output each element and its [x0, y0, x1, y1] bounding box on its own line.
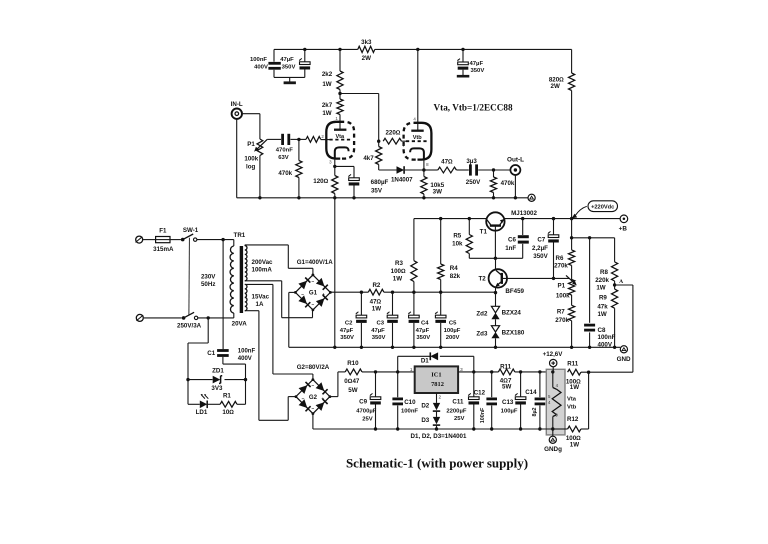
LV 0V rail	[313, 428, 553, 430]
svg-text:100nF: 100nF	[598, 334, 616, 341]
capacitor C11 2200uF 25V	[473, 372, 475, 397]
svg-text:82k: 82k	[450, 273, 461, 280]
svg-text:47Ω: 47Ω	[370, 298, 382, 305]
switch link line	[188, 238, 191, 315]
svg-text:R11: R11	[567, 360, 579, 367]
svg-text:T2: T2	[478, 275, 486, 282]
node 0V C9	[374, 427, 377, 430]
svg-text:G1=400V/1A: G1=400V/1A	[297, 259, 333, 266]
resistor R10 0R47 5W	[345, 369, 362, 375]
wire amp ground drop	[334, 198, 336, 347]
node C14 top	[538, 370, 541, 373]
chassis ground symbol (amp)	[528, 194, 535, 201]
node 0V C8	[588, 346, 591, 349]
svg-text:BZX24: BZX24	[502, 309, 522, 316]
diode D1	[430, 352, 438, 360]
svg-text:C2: C2	[345, 320, 353, 326]
node A	[613, 283, 616, 286]
svg-text:5W: 5W	[348, 387, 357, 394]
node rail C7	[552, 217, 555, 220]
diode D3	[433, 417, 440, 424]
wire diode to cathode node	[405, 169, 424, 171]
svg-text:C6: C6	[508, 237, 516, 244]
node 0V C5	[439, 346, 442, 349]
wire R11 to node	[581, 371, 633, 373]
svg-text:−: −	[302, 397, 305, 402]
svg-text:25V: 25V	[362, 416, 373, 422]
transformer core	[240, 246, 243, 313]
ground rail (amp)	[236, 119, 238, 198]
svg-text:100µF: 100µF	[444, 328, 461, 334]
node 0V amp ground	[333, 346, 336, 349]
bridge rectifier G2	[296, 380, 330, 414]
capacitor C14 8u2	[539, 372, 541, 397]
wire mains N to switch	[144, 317, 182, 319]
capacitor C10 100nF	[397, 372, 399, 397]
terminal GND (B supply)	[620, 346, 627, 353]
svg-text:R10: R10	[347, 360, 359, 367]
wire switch to transformer (bottom)	[198, 317, 234, 319]
wire G2 plus to R10	[330, 396, 338, 398]
diode 1N4007	[397, 166, 405, 174]
arrow +220Vdc	[575, 206, 586, 215]
node rail C6	[521, 217, 524, 220]
wire switch to transformer (top)	[197, 239, 234, 241]
svg-text:+220Vdc: +220Vdc	[591, 205, 614, 211]
svg-text:350V: 350V	[372, 335, 386, 341]
svg-text:TR1: TR1	[234, 232, 246, 239]
wire rail after R11	[515, 371, 553, 373]
svg-text:+: +	[322, 293, 325, 298]
svg-text:25V: 25V	[454, 416, 465, 422]
svg-text:C14: C14	[525, 389, 537, 396]
wire cap to grid stopper	[291, 138, 307, 140]
IC1 7812 regulator	[415, 366, 458, 393]
node C3 top	[391, 291, 394, 294]
svg-text:C11: C11	[452, 399, 464, 406]
svg-text:R5: R5	[453, 233, 461, 240]
wire 200Vac bottom to bridge G1	[245, 280, 282, 282]
wire T2 base line to P1	[502, 277, 570, 279]
svg-text:1W: 1W	[570, 384, 579, 391]
wire cathode node to 47R	[424, 169, 438, 171]
svg-text:220Ω: 220Ω	[385, 129, 400, 136]
svg-text:1nF: 1nF	[505, 245, 516, 252]
wire G2 minus to LV rail	[312, 414, 314, 429]
svg-text:D3: D3	[421, 417, 429, 424]
svg-text:ZD1: ZD1	[212, 368, 224, 375]
svg-text:2,2µF: 2,2µF	[532, 245, 548, 252]
capacitor C13 100uF	[520, 372, 522, 397]
resistor R12 100R 1W (heater)	[568, 426, 581, 432]
P1 wiper arrow (regulator)	[566, 275, 575, 283]
input jack IN-L	[232, 109, 242, 119]
node branch to C8/R8	[570, 236, 573, 239]
resistor R1 10R	[220, 401, 237, 407]
resistor 470k output	[493, 170, 495, 177]
terminal GNDg	[552, 429, 554, 436]
svg-text:−: −	[311, 280, 314, 285]
wire node A to heater network	[615, 284, 633, 286]
wire R12 to node	[581, 428, 589, 430]
node ZD1 left	[186, 378, 189, 381]
svg-text:100µF: 100µF	[501, 408, 518, 414]
resistor R11 4R7 5W	[498, 369, 514, 375]
svg-text:35V: 35V	[371, 187, 383, 194]
svg-text:230V: 230V	[201, 274, 216, 281]
svg-text:GND: GND	[617, 356, 631, 363]
wire IN-L to pot top	[242, 113, 260, 115]
svg-text:F1: F1	[159, 228, 167, 235]
Vtb grid (dashed)	[406, 140, 429, 142]
svg-text:−: −	[301, 293, 304, 298]
node 470k output top	[492, 168, 495, 171]
svg-text:Out-L: Out-L	[507, 156, 524, 163]
node C2 top	[360, 291, 363, 294]
svg-text:470k: 470k	[278, 170, 292, 177]
svg-text:250V/3A: 250V/3A	[177, 322, 202, 329]
svg-text:350V: 350V	[340, 335, 354, 341]
wire mains L to fuse	[143, 239, 156, 241]
svg-text:Zd2: Zd2	[476, 311, 488, 318]
wire 3u3 to Out-L	[478, 169, 510, 171]
wire +220V rail (emitter side)	[505, 218, 621, 220]
output jack Out-L	[510, 165, 520, 175]
fuse F1 315mA	[156, 237, 170, 243]
node rail R5	[468, 217, 471, 220]
svg-text:1W: 1W	[597, 311, 606, 318]
capacitor 680uF 35V electrolytic	[349, 178, 360, 181]
potentiometer P1 100k (regulator)	[569, 280, 575, 296]
node gnd 10k5	[422, 196, 425, 199]
svg-text:100nF: 100nF	[250, 57, 267, 63]
svg-text:1: 1	[410, 367, 413, 372]
node C7 bottom / T2 base line	[552, 277, 555, 280]
svg-text:R8: R8	[600, 269, 608, 276]
wire D1 bypass	[397, 356, 399, 372]
wire G1 plus raw HT rail	[330, 291, 368, 293]
capacitor 47uF 350V (above Vtb, electrolytic)	[462, 49, 464, 62]
wire +12.6V terminal to rail	[552, 367, 554, 372]
resistor R11 100R 1W (heater)	[568, 369, 581, 375]
wire Vtb anode to top rail	[417, 49, 419, 130]
node gnd 120R	[333, 196, 336, 199]
svg-text:350V: 350V	[416, 335, 430, 341]
wire R10 to IC1	[362, 371, 415, 373]
wire T2 collector up	[495, 258, 497, 269]
svg-text:400V: 400V	[238, 356, 252, 362]
svg-text:47µF: 47µF	[470, 61, 484, 67]
node 0V D3	[435, 427, 438, 430]
resistor 10k5 3W	[423, 170, 425, 177]
node 0V C3	[391, 346, 394, 349]
0V rail (HT)	[289, 346, 621, 348]
node 0V C11	[472, 427, 475, 430]
svg-text:C3: C3	[377, 320, 385, 326]
wire cap bottoms link	[273, 70, 275, 78]
node C1 branch (top mains)	[221, 238, 224, 241]
node C10/D1 top	[396, 370, 399, 373]
node C1 return branch	[207, 316, 210, 319]
node gnd jack	[514, 196, 517, 199]
svg-text:C4: C4	[421, 320, 429, 326]
svg-text:8µ2: 8µ2	[532, 407, 538, 416]
svg-text:10Ω: 10Ω	[222, 409, 234, 416]
svg-text:R6: R6	[556, 255, 564, 262]
heater resistor (tube heaters)	[552, 372, 554, 388]
svg-text:−: −	[311, 303, 314, 308]
svg-text:R3: R3	[395, 260, 403, 267]
Vta grid (dashed)	[330, 139, 352, 141]
resistor R4 82k	[440, 219, 442, 264]
P1 wiper arrow	[267, 138, 281, 140]
capacitor C5 100uF 200V	[440, 292, 442, 315]
resistor R7 270k	[569, 305, 575, 320]
svg-text:100mA: 100mA	[252, 266, 273, 273]
svg-text:470nF: 470nF	[276, 148, 293, 154]
capacitor C6 1nF	[522, 219, 524, 235]
wire IC1 output rail	[458, 371, 498, 373]
wire +220V rail (collector side)	[414, 218, 486, 220]
transistor T2 BF459	[489, 269, 507, 287]
capacitor C7 2.2uF 350V	[553, 219, 555, 235]
svg-text:20VA: 20VA	[232, 321, 248, 328]
svg-text:IC1: IC1	[431, 372, 441, 379]
svg-text:47µF: 47µF	[416, 328, 430, 334]
resistor 2k7 1W	[337, 99, 343, 115]
wire Zd3 to 0V rail	[495, 338, 497, 347]
wire Zd2 to Zd3	[495, 319, 497, 325]
svg-text:200V: 200V	[446, 335, 460, 341]
svg-text:G2: G2	[309, 394, 318, 401]
node rail right column	[570, 217, 573, 220]
svg-text:270k: 270k	[555, 317, 569, 324]
wire 200Vac top to bridge G1	[244, 244, 246, 247]
mains terminal N	[136, 314, 143, 321]
svg-text:P1: P1	[558, 283, 566, 290]
svg-text:120Ω: 120Ω	[313, 178, 328, 185]
label +220Vdc bubble	[588, 201, 618, 212]
svg-text:R7: R7	[557, 309, 565, 316]
svg-text:3: 3	[460, 367, 463, 372]
svg-text:47µF: 47µF	[340, 328, 354, 334]
resistor 220R grid Vtb	[383, 138, 401, 144]
svg-text:2k7: 2k7	[322, 102, 333, 109]
svg-text:2: 2	[439, 394, 442, 399]
svg-text:Zd3: Zd3	[476, 331, 488, 338]
svg-text:1W: 1W	[322, 81, 331, 88]
svg-text:C12: C12	[474, 390, 486, 397]
wire C1 bottom to ZD1 branch	[223, 363, 246, 365]
wire 15Vac bottom to bridge G2	[245, 310, 259, 312]
svg-text:100Ω: 100Ω	[391, 268, 406, 275]
wire top B+ rail right segment	[375, 48, 572, 50]
node C5/R4 junction	[439, 291, 442, 294]
Vtb anode (plate) bar	[411, 130, 423, 132]
potentiometer P1 100k log	[257, 139, 263, 156]
node C9 top	[374, 370, 377, 373]
resistor 3k3 in top rail	[358, 46, 375, 52]
svg-text:D1, D2, D3=1N4001: D1, D2, D3=1N4001	[411, 433, 467, 440]
svg-text:+B: +B	[619, 225, 628, 232]
node 0V zener	[494, 346, 497, 349]
node top rail / Vtb anode	[416, 48, 419, 51]
capacitor 100nF 400V (top left)	[273, 49, 275, 61]
capacitor 470nF 63V	[281, 134, 284, 145]
node heater network	[587, 371, 590, 374]
zener Zd2 BZX24	[491, 306, 499, 313]
svg-text:50Hz: 50Hz	[201, 281, 215, 288]
node 220R/4k7 junction	[377, 140, 380, 143]
svg-text:+: +	[321, 397, 324, 402]
resistor 4k7	[378, 141, 380, 146]
svg-text:D2: D2	[421, 403, 429, 410]
svg-text:350V: 350V	[533, 253, 548, 260]
svg-text:GNDg: GNDg	[544, 446, 562, 453]
node top rail / 47uF 350V branch	[461, 48, 464, 51]
svg-text:270k: 270k	[554, 263, 568, 270]
wire IC1 pin2 down	[436, 393, 438, 403]
wire ZD1 line	[188, 379, 213, 381]
wire stopper to Vta grid	[321, 139, 330, 141]
wire cathode to 680uF	[335, 165, 354, 167]
switch SW-1 pole 2	[182, 316, 186, 320]
node Vtb cathode junction	[422, 168, 425, 171]
svg-text:log: log	[246, 163, 255, 170]
Vta anode (plate) bar	[334, 129, 346, 131]
node C4/R3 junction	[412, 291, 415, 294]
svg-text:1W: 1W	[322, 110, 331, 117]
resistor grid stopper	[306, 137, 321, 143]
node 0V C13	[519, 427, 522, 430]
node gnd 470k out	[492, 196, 495, 199]
wire G1 minus to 0V rail	[289, 291, 296, 293]
node heater top / +12.6V	[551, 370, 554, 373]
resistor R6 270k	[569, 250, 575, 266]
svg-text:C10: C10	[404, 399, 416, 406]
switch SW-1 pole 1	[181, 238, 185, 242]
wire 4k7 to diode	[379, 169, 397, 171]
LED LD1	[188, 403, 200, 405]
node ZD1 right	[244, 378, 247, 381]
node 0V C4	[412, 346, 415, 349]
terminal +12.6V	[550, 359, 557, 366]
resistor R3 100R 1W	[413, 219, 415, 261]
svg-text:2200µF: 2200µF	[446, 408, 466, 414]
svg-text:Vta, Vtb=1/2ECC88: Vta, Vtb=1/2ECC88	[434, 103, 513, 113]
node 0V C14	[538, 427, 541, 430]
resistor 2k2 1W	[339, 49, 341, 71]
svg-text:2W: 2W	[551, 83, 560, 90]
heater block (gray)	[546, 369, 565, 435]
svg-text:15Vac: 15Vac	[252, 293, 270, 300]
node C13 top	[519, 370, 522, 373]
svg-text:C1: C1	[207, 350, 215, 357]
svg-text:47µF: 47µF	[371, 328, 385, 334]
node rail R4	[439, 217, 442, 220]
svg-text:2W: 2W	[362, 55, 371, 62]
wire T2 emitter down	[495, 287, 497, 306]
node top rail / 47uF branch	[303, 48, 306, 51]
svg-text:1W: 1W	[393, 275, 402, 282]
resistor 47R output	[438, 167, 457, 173]
svg-text:Vta: Vta	[567, 397, 577, 403]
svg-text:−: −	[311, 384, 314, 389]
wire Vtb cathode down	[423, 159, 425, 170]
svg-text:63V: 63V	[278, 155, 289, 161]
ground symbol (top left)	[289, 77, 291, 82]
svg-text:BZX180: BZX180	[502, 329, 525, 336]
wire top B+ rail left segment	[274, 48, 358, 50]
svg-text:1W: 1W	[596, 285, 605, 292]
svg-text:2k2: 2k2	[322, 71, 333, 78]
svg-text:400V: 400V	[254, 64, 268, 70]
svg-text:C5: C5	[449, 320, 457, 326]
svg-text:LD1: LD1	[196, 409, 208, 416]
svg-text:3V3: 3V3	[211, 385, 223, 392]
wire right rail down	[571, 49, 573, 73]
svg-text:D1: D1	[421, 357, 429, 364]
svg-text:350V: 350V	[282, 64, 296, 70]
node T1 base	[494, 257, 497, 260]
Vtb cathode	[410, 148, 424, 158]
svg-text:Schematic-1 (with power supply: Schematic-1 (with power supply)	[346, 456, 528, 471]
svg-text:5W: 5W	[502, 383, 511, 390]
terminal +B	[620, 215, 628, 223]
svg-text:Vtb: Vtb	[567, 405, 577, 411]
svg-text:7812: 7812	[431, 381, 444, 388]
svg-text:470k: 470k	[501, 180, 515, 187]
transformer TR1 primary winding	[233, 240, 235, 246]
node 0V R7	[570, 346, 573, 349]
svg-text:G1: G1	[309, 290, 318, 297]
capacitor 47uF 350V (top left electrolytic)	[304, 49, 306, 61]
svg-text:C8: C8	[598, 327, 606, 334]
svg-text:1N4007: 1N4007	[391, 176, 413, 183]
node C11 top	[472, 370, 475, 373]
svg-text:220k: 220k	[595, 277, 609, 284]
svg-text:G2=80V/2A: G2=80V/2A	[297, 364, 330, 371]
svg-text:1A: 1A	[256, 301, 264, 308]
wire LED to R1	[207, 403, 220, 405]
node 0V C10	[396, 427, 399, 430]
wire Vta cathode to 120R	[334, 158, 336, 176]
svg-text:200Vac: 200Vac	[252, 259, 274, 266]
capacitor C9 4700uF 25V	[375, 372, 377, 397]
wire raw rail after R2	[384, 291, 496, 293]
capacitor C4 47uF 350V	[413, 292, 415, 315]
svg-text:47µF: 47µF	[280, 57, 294, 63]
resistor R8 220k 1W	[614, 238, 616, 262]
wire 47R to 3u3	[456, 169, 468, 171]
transistor T1 MJ13002	[486, 212, 504, 230]
node 0V C2	[360, 346, 363, 349]
svg-text:A: A	[619, 279, 623, 285]
capacitor C8 100nF 400V	[589, 238, 591, 323]
resistor R5 10k	[468, 219, 470, 235]
svg-text:C7: C7	[537, 237, 545, 244]
resistor 120R cathode	[332, 176, 338, 194]
svg-text:+12,6V: +12,6V	[543, 351, 564, 358]
svg-text:100nF: 100nF	[238, 349, 256, 355]
wire T1 base down	[494, 226, 496, 259]
node gnd 680uF	[352, 196, 355, 199]
zener Zd3 BZX180	[491, 326, 499, 332]
svg-text:IN-L: IN-L	[231, 101, 243, 108]
svg-text:3W: 3W	[433, 189, 442, 196]
svg-text:47Ω: 47Ω	[441, 158, 453, 165]
diode D2	[433, 403, 440, 410]
